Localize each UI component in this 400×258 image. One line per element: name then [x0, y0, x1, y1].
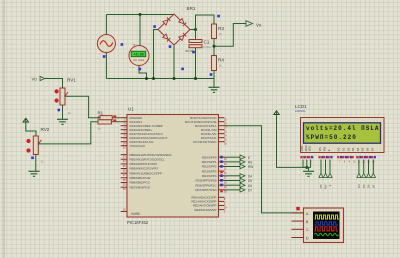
LCD pin marker VSS (1)	[300, 156, 302, 158]
wire: bottom ground bus	[106, 78, 214, 80]
svg-text:D5: D5	[248, 179, 252, 183]
svg-text:RD0/SPP0: RD0/SPP0	[202, 155, 217, 159]
wire: top rail from AC source to bridge top vertex	[106, 14, 174, 16]
svg-text:D4: D4	[356, 147, 360, 151]
wire: RV1 wiper to R1 left	[65, 96, 100, 118]
node: C1 junction on bus	[194, 77, 197, 80]
ground: under LCD	[303, 171, 314, 176]
wire: LCD D5 stub down to terminal	[363, 160, 365, 174]
pin marker blue RD4	[220, 174, 223, 177]
pin stub left RA row RA0/AN0 pin 2	[121, 117, 127, 119]
power: +5V arrow at RV2	[23, 118, 29, 125]
svg-text:1k: 1k	[219, 64, 223, 68]
svg-text:RB1/AN10/INT1/SCK/SCL: RB1/AN10/INT1/SCK/SCL	[130, 157, 166, 161]
svg-text:1k: 1k	[41, 160, 45, 164]
pin stub left RB row RB6/KBI2/PGC pin 39	[121, 182, 127, 184]
ground: main supply ground under R4	[209, 87, 220, 92]
pin stub left RB row RB5/KBI1/PGM pin 38	[121, 177, 127, 179]
scope pin C lead	[292, 228, 304, 230]
svg-text:RB3/AN9/CCP2/VPO: RB3/AN9/CCP2/VPO	[130, 167, 159, 171]
pin stub VUSB pin 18	[121, 211, 127, 213]
svg-text:E: E	[327, 149, 331, 151]
LCD pin marker VEE (3)	[308, 156, 310, 158]
svg-text:U1: U1	[128, 107, 134, 112]
node: bridge left wire junction on bus	[152, 77, 155, 80]
wire: bridge bottom vertex to bus	[173, 46, 175, 79]
pin stub left RA row OSC1/CLKI pin 13	[121, 145, 127, 147]
wire: power arrow down and right to LCD VDD junction	[277, 117, 307, 167]
svg-text:D5: D5	[361, 147, 365, 151]
resistor R1 body (horizontal)	[100, 116, 112, 120]
LCD pin marker D2 (9)	[347, 156, 349, 158]
pin stub right RD row RD0/SPP0 pin 19	[219, 156, 225, 158]
svg-text:RD2/SPP2: RD2/SPP2	[202, 165, 217, 169]
svg-text:D6: D6	[248, 184, 252, 188]
svg-text:1k: 1k	[98, 126, 102, 130]
svg-text:RE3/MCLR/VPP: RE3/MCLR/VPP	[194, 208, 216, 212]
pin stub right RC row RC2/CCP1/P1A pin 17	[219, 125, 225, 127]
wire: LCD E stub down to terminal	[329, 160, 331, 174]
pin stub left RA row RA6/OSC2/CLKO pin 14	[121, 141, 127, 143]
pin stub left RA row RA2/AN2/VREF-/CVREF pin 4	[121, 125, 127, 127]
svg-text:PIC18F452: PIC18F452	[127, 220, 149, 225]
pin stub left RB row RB7/KBI3/PGD pin 40	[121, 186, 127, 188]
scope pin A lead	[292, 212, 304, 214]
pin stub left RB row RB0/AN12/INT0/FLT0/SDI/SDA pin 33	[121, 154, 127, 156]
svg-text:R3: R3	[218, 26, 224, 31]
RV1 origin marker	[58, 109, 61, 112]
LCD pin marker D5 (12)	[361, 156, 363, 158]
op-amp/mcu U1 PIC18F452 chip body	[127, 115, 219, 218]
svg-text:D3: D3	[351, 147, 355, 151]
wire: R2 right to PIC pin RA1	[111, 121, 120, 123]
wire: RV2 bottom to ground	[35, 155, 37, 172]
pin stub right RC row RC0/T1OSO/T1CKI pin 15	[219, 117, 225, 119]
wire: RV2 wiper to R2 left	[38, 122, 98, 144]
scope trace yellow square wave	[315, 215, 340, 219]
svg-text:R4: R4	[218, 57, 224, 62]
ground: under RV1	[57, 119, 68, 124]
wire: C1 top lead	[195, 30, 197, 40]
svg-text:1k: 1k	[68, 111, 72, 115]
wire: AC source bottom lead down to ground bus	[105, 52, 107, 79]
svg-text:RB2/AN8/INT2/VMO: RB2/AN8/INT2/VMO	[130, 162, 158, 166]
wire: RD1 to terminal RS	[225, 161, 241, 163]
svg-text:RB7/KBI3/PGD: RB7/KBI3/PGD	[130, 185, 151, 189]
C1 origin marker	[192, 51, 195, 54]
wire: LCD D4 stub down to terminal	[358, 160, 360, 174]
wire: LCD RS stub down to terminal	[320, 160, 322, 174]
ac source origin marker	[103, 55, 106, 58]
scope pin B lead	[292, 220, 304, 222]
terminal: RW	[240, 164, 245, 168]
potentiometer RV2 body	[33, 136, 38, 155]
wire: stem to LCD ground	[308, 167, 310, 171]
LCD pin numbers row	[302, 161, 375, 163]
wire: R4 bottom to bus end	[213, 71, 215, 79]
RV2 wiper arrow	[38, 140, 41, 144]
potentiometer RV1 body	[60, 88, 65, 105]
terminal: D4	[240, 174, 245, 178]
svg-text:RB6/KBI2/PGC: RB6/KBI2/PGC	[130, 181, 151, 185]
svg-text:RV2: RV2	[41, 127, 50, 132]
terminal: D7 (below LCD)	[371, 173, 375, 177]
pin stub right RC row RC6/TX/CK pin 25	[219, 137, 225, 139]
svg-text:E: E	[328, 184, 332, 186]
scope trace red square wave	[315, 227, 338, 231]
svg-text:RD3/SPP3: RD3/SPP3	[202, 169, 217, 173]
terminal: D6	[240, 183, 245, 187]
terminal: D7	[240, 188, 245, 192]
pin stub right RD row RD7/SPP7/P1D pin 30	[219, 189, 225, 191]
pin stub right RE row RE0/AN5/CK1SPP pin 8	[219, 196, 225, 198]
resistor R3 body	[212, 24, 217, 39]
node: voltmeter bottom junction on bus	[145, 77, 148, 80]
pin stub right RE row RE3/MCLR/VPP pin 1	[219, 209, 225, 211]
svg-text:%PWΠ=50.220: %PWΠ=50.220	[306, 134, 356, 141]
svg-text:LCD1: LCD1	[295, 104, 307, 109]
svg-text:RC7/RX/DT/SDO: RC7/RX/DT/SDO	[193, 140, 217, 144]
wire: R3 bottom to R4 top	[213, 39, 215, 56]
RV1 actuator buttons	[55, 89, 59, 93]
svg-text:D5: D5	[362, 184, 366, 188]
wire: LCD RW stub down to terminal	[325, 160, 327, 174]
svg-text:D2: D2	[346, 147, 350, 151]
LCD pin marker D3 (10)	[352, 156, 354, 158]
wire: RD2 to terminal RW	[225, 166, 241, 168]
svg-text:D7: D7	[371, 184, 375, 188]
pin marker red RD7	[220, 190, 223, 193]
pin stub left RA row RA1/AN1 pin 3	[121, 121, 127, 123]
RV1 wiper arrow	[65, 92, 69, 96]
pin stub right RD row RD1/SPP1 pin 20	[219, 161, 225, 163]
svg-text:1000u: 1000u	[203, 45, 212, 49]
pin stub left RA row RA5/AN4/SS/LVDIN/C2OUT pin 7	[121, 137, 127, 139]
bridge diode D1 top-left	[163, 18, 171, 26]
scope pin D lead	[292, 237, 304, 239]
pin stub right RC row RC5/D+/VP pin 24	[219, 133, 225, 135]
pin junction marker RA1	[113, 119, 116, 122]
wire: bridge right vertex to C1/R3 node	[190, 29, 196, 31]
svg-text:RB4/AN11/KBI0/CSSPP: RB4/AN11/KBI0/CSSPP	[130, 171, 162, 175]
pin stub left RB row RB1/AN10/INT1/SCK/SCL pin 34	[121, 158, 127, 160]
svg-text:RW: RW	[324, 184, 328, 189]
svg-text:Vo: Vo	[32, 77, 38, 82]
wire: divider junction jog up to Vo terminal	[214, 24, 246, 47]
ac source V1 body	[97, 35, 115, 53]
svg-text:C: C	[306, 228, 309, 232]
svg-text:D6: D6	[366, 147, 370, 151]
pin junction marker RA0	[113, 115, 116, 118]
wire: RD0 to terminal E	[225, 156, 241, 158]
terminal: E (below LCD)	[328, 173, 332, 177]
pin marker red RD3	[220, 171, 223, 174]
pin stub right RC row RC4/D-/VM pin 23	[219, 129, 225, 131]
svg-text:D4: D4	[248, 174, 252, 178]
R3 origin marker	[217, 15, 220, 18]
terminal: RS (below LCD)	[319, 173, 323, 177]
pin stub right RE row RE1/AN6/CK2SPP pin 9	[219, 200, 225, 202]
svg-text:RD4/SPP4: RD4/SPP4	[202, 174, 217, 178]
scope connection red marker	[296, 207, 299, 210]
wire: RD4 to terminal D4	[225, 175, 241, 177]
wire: LCD VSS down	[302, 160, 304, 168]
bridge diode D3 bottom-left	[163, 34, 171, 42]
svg-text:RS: RS	[248, 161, 252, 165]
wire: bus stem down to ground	[213, 79, 215, 88]
pin stub right RE row RE2/AN7/OESPP pin 10	[219, 205, 225, 207]
wire: LCD D7 stub down to terminal	[372, 160, 374, 174]
LCD pin marker D6 (13)	[366, 156, 368, 158]
LCD pin marker RW (5)	[323, 156, 325, 158]
svg-text:D4: D4	[357, 184, 361, 188]
wire: LCD D6 stub down to terminal	[368, 160, 370, 174]
voltmeter origin marker	[138, 68, 141, 71]
pin stub right RD row RD3/SPP3 pin 22	[219, 170, 225, 172]
wire: R1 right to PIC pin RA0	[112, 117, 121, 119]
wire: bridge left vertex to bus	[154, 30, 159, 79]
pin stub right RD row RD4/SPP4 pin 27	[219, 175, 225, 177]
terminal: D6 (below LCD)	[366, 173, 370, 177]
wire: bridge output up and over to R3 top	[196, 15, 215, 30]
wire: C1 bottom lead to bus	[195, 48, 197, 79]
wire: RV1 bottom to ground	[62, 105, 64, 119]
node: bridge bottom junction on bus	[173, 77, 176, 80]
oscilloscope screen	[313, 212, 340, 240]
terminal: E	[240, 155, 245, 159]
svg-text:D7: D7	[370, 147, 374, 151]
R4 origin marker	[210, 73, 213, 76]
pin stub left RB row RB3/AN9/CCP2/VPO pin 36	[121, 168, 127, 170]
pin stub right RD row RD2/SPP2 pin 21	[219, 166, 225, 168]
svg-text:1k: 1k	[219, 32, 223, 36]
C1 lower origin marker	[181, 68, 184, 71]
svg-text:BR1: BR1	[187, 6, 196, 11]
svg-text:RV1: RV1	[67, 78, 76, 83]
RV2 origin marker	[31, 157, 34, 160]
terminal: D5	[240, 178, 245, 182]
resistor R2 body (horizontal)	[98, 120, 111, 124]
LCD pin marker D7 (14)	[371, 156, 373, 158]
oscilloscope body	[304, 208, 344, 243]
terminal: RW (below LCD)	[323, 173, 327, 177]
wire: AC source top lead	[105, 15, 107, 35]
bridge diode D2 top-right	[179, 19, 187, 27]
LCD pin marker D0 (7)	[337, 156, 339, 158]
pin stub right RC row RC1/T1OSI/CCP2/UOE pin 16	[219, 121, 225, 123]
pin marker blue RD0	[220, 156, 223, 159]
svg-text:E: E	[248, 156, 250, 160]
node: LCD VDD junction	[305, 166, 308, 169]
pin marker blue RD2	[220, 165, 223, 168]
svg-text:Vo: Vo	[256, 22, 262, 27]
voltmeter screen	[131, 51, 146, 57]
svg-text:OSC1/CLKI: OSC1/CLKI	[130, 144, 146, 148]
svg-text:RD7/SPP7/P1D: RD7/SPP7/P1D	[195, 188, 217, 192]
pin stub left RA row RA3/AN3/VREF+ pin 5	[121, 129, 127, 131]
sheet left border line	[3, 0, 5, 258]
wire: RD7 to terminal D7	[225, 189, 241, 191]
terminal: RS	[240, 160, 245, 164]
wire: voltmeter bottom lead jog to bus	[139, 65, 147, 79]
svg-text:AC Volts: AC Volts	[133, 58, 145, 62]
wire: RD5 to terminal D5	[225, 180, 241, 182]
svg-text:RB5/KBI1/PGM: RB5/KBI1/PGM	[130, 176, 151, 180]
wire: tie VSS-VDD-VEE	[303, 166, 311, 168]
LCD pin marker D4 (11)	[356, 156, 358, 158]
svg-text:RW: RW	[323, 146, 327, 151]
node: R3/R4 divider junction	[213, 45, 216, 48]
display LCD1 body	[301, 118, 385, 153]
pin marker blue RD5	[220, 179, 223, 182]
LCD screen bezel	[304, 123, 381, 143]
svg-text:RD1/SPP1: RD1/SPP1	[202, 160, 217, 164]
pin stub left RB row RB2/AN8/INT2/VMO pin 35	[121, 163, 127, 165]
svg-text:RS: RS	[318, 147, 322, 151]
svg-text:RD5/SPP5/P1B: RD5/SPP5/P1B	[195, 179, 216, 183]
node: junction at bridge output	[194, 28, 197, 31]
LCD pin marker E (6)	[327, 156, 329, 158]
resistor R4 body	[212, 56, 217, 71]
pin stub left RB row RB4/AN11/KBI0/CSSPP pin 37	[121, 172, 127, 174]
svg-text:D1: D1	[342, 147, 346, 151]
pin stub left RA row RA4/T0CKI/C1OUT/RCV pin 6	[121, 133, 127, 135]
voltmeter body	[129, 46, 149, 66]
svg-text:D6: D6	[367, 184, 371, 188]
wire: LCD VDD down	[306, 160, 308, 168]
wire: RC2/CCP1 to oscilloscope channel A	[225, 126, 304, 213]
pin stub right RC row RC7/RX/DT/SDO pin 26	[219, 141, 225, 143]
voltmeter bounding origin marker	[121, 43, 124, 46]
svg-text:+: +	[133, 43, 136, 48]
svg-text:RD6/SPP6/P1C: RD6/SPP6/P1C	[195, 183, 217, 187]
power: +5V arrow feeding LCD VDD	[274, 111, 280, 117]
svg-text:RB0/AN12/INT0/FLT0/SDI/SDA: RB0/AN12/INT0/FLT0/SDI/SDA	[130, 153, 172, 157]
wire: voltmeter top lead	[139, 15, 141, 47]
bridge diode D4 bottom-right	[179, 33, 187, 41]
node: junction of voltmeter tap on top rail	[139, 13, 142, 16]
ac source sine symbol	[100, 41, 113, 47]
svg-text:D: D	[306, 236, 309, 240]
svg-text:D0: D0	[337, 147, 341, 151]
svg-text:LM016L: LM016L	[295, 109, 306, 113]
ground: under RV2	[29, 171, 40, 176]
LCD pin marker D1 (8)	[342, 156, 344, 158]
svg-text:volts=20.4l ΠSLA: volts=20.4l ΠSLA	[306, 125, 379, 132]
scope trace blue square wave	[315, 222, 339, 225]
capacitor C1 plates	[189, 40, 202, 43]
bridge rectifier BR1 diamond outline	[158, 14, 190, 45]
svg-text:RS: RS	[319, 184, 323, 188]
terminal: D4 (below LCD)	[357, 173, 361, 177]
svg-text:VUSB: VUSB	[131, 212, 140, 216]
terminal: Vo output arrow	[246, 21, 253, 27]
scope trace green wave	[315, 233, 339, 236]
wire: Vo terminal to RV1 top	[45, 79, 63, 89]
RV2 actuator buttons	[26, 139, 30, 143]
pin marker blue RD6	[220, 184, 223, 187]
pin stub right RD row RD6/SPP6/P1C pin 29	[219, 184, 225, 186]
LCD pin marker VDD (2)	[304, 156, 306, 158]
svg-text:VEE: VEE	[308, 146, 312, 152]
wire: power arrow to RV2 top	[26, 125, 36, 136]
wire: LCD VEE down	[310, 160, 312, 168]
wire: RD6 to terminal D6	[225, 184, 241, 186]
terminal: D5 (below LCD)	[362, 173, 366, 177]
svg-text:D7: D7	[248, 189, 252, 193]
pin marker blue RD1	[220, 160, 223, 163]
LCD pin marker RS (4)	[318, 156, 320, 158]
bridge origin markers	[153, 25, 156, 28]
svg-text:88.08: 88.08	[186, 49, 194, 53]
pin stub right RD row RD5/SPP5/P1B pin 28	[219, 179, 225, 181]
svg-text:RW: RW	[248, 165, 253, 169]
